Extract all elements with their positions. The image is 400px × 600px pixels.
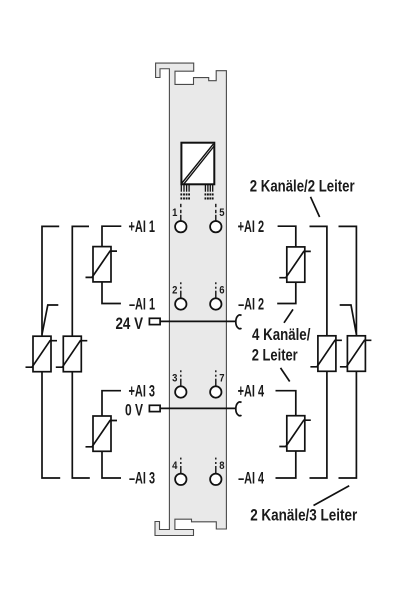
24 V female spring contact (arc symbol) xyxy=(236,315,242,329)
svg-text:–AI 4: –AI 4 xyxy=(238,469,264,488)
bracket wire right inner (2-wire hookup) xyxy=(310,226,327,478)
bracket wire right outer (3-wire hookup) xyxy=(339,226,357,478)
converter pins right group (pins 5-8) xyxy=(205,184,212,191)
24 V power jumper contact (male blade symbol) xyxy=(149,318,160,324)
converter pins left group (pins 1-4) xyxy=(181,184,189,191)
dashed lead to terminal 1 xyxy=(180,204,182,221)
terminal 2 xyxy=(175,298,186,309)
bracket wire left outer (2-wire hookup) xyxy=(42,226,60,478)
terminal 6 xyxy=(210,298,221,309)
RTD sensor channel 3 xyxy=(86,416,118,451)
terminal 4 xyxy=(175,474,186,485)
converter U2 (galvanically isolated A/D converter box) xyxy=(181,143,214,185)
wire +AI2 to -AI2 through sensor channel 2 xyxy=(277,226,296,303)
svg-text:4 Kanäle/: 4 Kanäle/ xyxy=(252,325,311,344)
svg-text:1: 1 xyxy=(172,207,177,219)
0 V power jumper contact (male blade symbol) xyxy=(149,405,160,411)
module body U1 (bus terminal housing) xyxy=(155,63,226,535)
RTD sensor on left inner bracket xyxy=(56,336,88,372)
wire +AI3 to -AI3 through sensor channel 3 xyxy=(102,391,121,478)
wire third conductor (3-wire hookup, left) xyxy=(42,305,58,335)
dashed stub above terminal 4 xyxy=(180,458,182,475)
svg-text:4: 4 xyxy=(172,460,178,472)
svg-text:0 V: 0 V xyxy=(125,400,143,419)
0 V female spring contact (arc symbol) xyxy=(236,402,242,416)
terminal 1 xyxy=(175,221,186,232)
dashed stub above terminal 3 xyxy=(180,370,182,387)
svg-text:–AI 3: –AI 3 xyxy=(129,469,155,488)
wire +AI4 to -AI4 through sensor channel 4 xyxy=(276,391,296,478)
dashed stub above terminal 6 xyxy=(215,282,217,299)
svg-text:6: 6 xyxy=(219,285,224,297)
pointer line from 2 Kanäle/3 Leiter xyxy=(314,486,350,506)
RTD sensor channel 1 xyxy=(86,247,118,282)
svg-text:3: 3 xyxy=(172,373,177,385)
wire +AI1 to -AI1 through sensor channel 1 xyxy=(102,226,121,303)
dashed lead to terminal 5 xyxy=(215,204,217,221)
RTD sensor on left outer bracket xyxy=(26,336,58,372)
terminal 7 xyxy=(210,386,221,397)
dashed stub above terminal 2 xyxy=(180,282,182,299)
wire third conductor (3-wire hookup, right) xyxy=(340,305,357,335)
svg-text:+AI 2: +AI 2 xyxy=(238,217,265,236)
pointer line from 4 Kanäle up to -AI2 junction xyxy=(284,309,293,322)
RTD sensor channel 4 xyxy=(279,416,311,451)
bracket wire left inner (2-wire hookup) xyxy=(72,226,90,478)
RTD sensor on right outer bracket xyxy=(340,336,372,372)
converter pin dots right xyxy=(205,193,214,199)
terminal 3 xyxy=(175,386,186,397)
terminal 8 xyxy=(210,474,221,485)
svg-text:+AI 3: +AI 3 xyxy=(129,381,156,400)
dashed stub above terminal 7 xyxy=(215,370,217,387)
dashed stub above terminal 8 xyxy=(215,458,217,475)
pointer line from 2 Kanäle/2 Leiter xyxy=(311,197,320,217)
converter pin dots left xyxy=(180,193,190,199)
svg-text:–AI 2: –AI 2 xyxy=(238,295,264,314)
svg-text:24 V: 24 V xyxy=(116,314,144,333)
svg-text:2 Kanäle/2 Leiter: 2 Kanäle/2 Leiter xyxy=(250,176,355,195)
wire 24 V rail across module xyxy=(160,320,236,322)
wire 0 V rail across module xyxy=(160,407,236,409)
svg-text:7: 7 xyxy=(219,373,224,385)
svg-text:8: 8 xyxy=(219,460,224,472)
svg-text:+AI 1: +AI 1 xyxy=(129,217,156,236)
pointer line from 2 Leiter down to +AI4 junction xyxy=(281,368,290,382)
svg-text:2: 2 xyxy=(172,285,177,297)
terminal 5 xyxy=(210,221,221,232)
svg-text:2 Kanäle/3 Leiter: 2 Kanäle/3 Leiter xyxy=(250,506,357,525)
svg-text:5: 5 xyxy=(219,207,224,219)
RTD sensor on right inner bracket xyxy=(310,336,342,372)
svg-text:–AI 1: –AI 1 xyxy=(129,295,155,314)
svg-text:2 Leiter: 2 Leiter xyxy=(252,346,298,365)
RTD sensor channel 2 xyxy=(279,247,311,282)
svg-text:+AI 4: +AI 4 xyxy=(238,381,265,400)
